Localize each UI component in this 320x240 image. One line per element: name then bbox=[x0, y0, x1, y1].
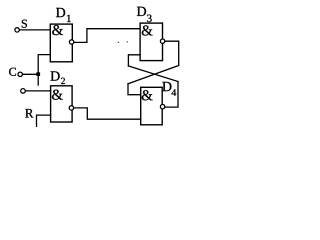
label D4 sub bbox=[172, 89, 177, 96]
wire cross diagonal D4 to D3 bbox=[128, 66, 178, 82]
nand-gate D1 box bbox=[50, 24, 72, 62]
wire R to D2 pin 2 bbox=[37, 115, 51, 126]
wire D2 output to D4 pin 2 bbox=[74, 108, 141, 119]
wire cross diagonal D3 to D4 bbox=[128, 66, 179, 84]
label D1 D bbox=[56, 8, 65, 17]
label D3 sub bbox=[147, 15, 152, 22]
junction dot on C line bbox=[36, 72, 40, 76]
label S bbox=[22, 20, 27, 28]
nand-gate D3 box bbox=[140, 23, 162, 61]
stray dot a bbox=[118, 42, 119, 43]
wire junction up to D1 pin 2 bbox=[38, 55, 50, 75]
wire D4 output up bbox=[165, 82, 178, 108]
wire D1 output to D3 pin 1 bbox=[74, 29, 140, 43]
input terminal C2 bbox=[21, 89, 26, 94]
nand-gate D2 box bbox=[51, 86, 73, 122]
inverter bubble of D4 bbox=[160, 105, 164, 109]
label D2 D bbox=[51, 71, 60, 80]
wire to D3 pin 2 bbox=[128, 55, 140, 66]
label R bbox=[25, 109, 33, 118]
label D1 sub bbox=[67, 15, 71, 22]
amp symbol D1 bbox=[52, 25, 63, 35]
stray dot b bbox=[127, 41, 128, 42]
amp symbol D4 bbox=[142, 90, 153, 100]
label D2 sub bbox=[61, 78, 65, 84]
input terminal C bbox=[18, 72, 22, 76]
label C bbox=[9, 68, 16, 76]
inverter bubble of D2 bbox=[69, 106, 73, 110]
label D3 D bbox=[137, 7, 146, 16]
label D4 D bbox=[162, 82, 171, 91]
wire to D4 pin 1 bbox=[128, 84, 141, 95]
nand-gate D4 box bbox=[141, 87, 163, 125]
amp symbol D3 bbox=[142, 25, 153, 35]
wire S to D1 pin 1 bbox=[20, 29, 51, 31]
input terminal S bbox=[15, 28, 19, 32]
wire C2 to D2 pin 1 bbox=[26, 90, 51, 92]
inverter bubble of D1 bbox=[69, 40, 73, 44]
amp symbol D2 bbox=[52, 90, 63, 100]
wire D3 output down bbox=[165, 41, 179, 65]
wire junction stub down bbox=[37, 74, 39, 85]
wire C to junction bbox=[23, 73, 39, 75]
inverter bubble of D3 bbox=[160, 39, 164, 43]
